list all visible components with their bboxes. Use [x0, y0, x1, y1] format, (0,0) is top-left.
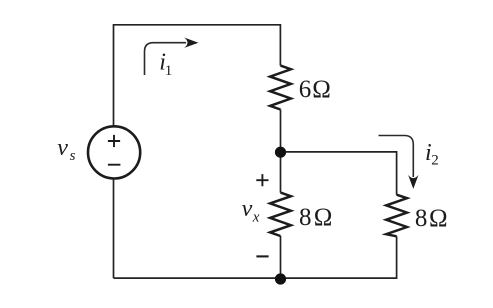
current arrow i2	[379, 136, 414, 178]
minus sign inside source	[108, 164, 121, 166]
wire mid: node A to right branch corner down to right 8-ohm	[281, 152, 397, 195]
resistor 6-ohm zigzag	[270, 66, 291, 110]
svg-text:Ω: Ω	[314, 204, 333, 231]
svg-text:v: v	[57, 135, 68, 161]
resistor 8-ohm right zigzag	[386, 195, 407, 237]
wire top loop: left vertical + top horizontal + right drop to 6-ohm	[114, 25, 281, 126]
svg-text:Ω: Ω	[429, 205, 448, 232]
current arrow i1	[145, 43, 187, 75]
resistor 8-ohm middle zigzag	[270, 193, 291, 236]
svg-text:1: 1	[165, 63, 173, 79]
plus sign above vx	[256, 174, 268, 186]
node A junction dot	[275, 147, 286, 158]
svg-text:Ω: Ω	[312, 76, 331, 103]
svg-text:6: 6	[299, 76, 312, 103]
node B junction dot	[275, 273, 286, 284]
wire: 6-ohm bottom to node A	[280, 110, 282, 153]
wire: middle 8-ohm bottom to node B	[280, 236, 282, 278]
svg-text:8: 8	[299, 204, 312, 231]
svg-text:8: 8	[415, 205, 428, 232]
wire left lower: source bottom to bottom-left corner	[113, 179, 115, 278]
wire: node A down to middle 8-ohm	[280, 152, 282, 193]
svg-text:2: 2	[431, 153, 439, 169]
wire bottom: bottom-left corner to bottom-right corner and up right branch	[114, 236, 397, 278]
voltage source vs circle	[88, 126, 140, 178]
svg-text:x: x	[252, 210, 260, 226]
minus sign below vx	[256, 255, 268, 257]
svg-text:s: s	[70, 148, 76, 164]
svg-text:v: v	[242, 196, 253, 222]
plus sign inside source	[108, 135, 120, 147]
